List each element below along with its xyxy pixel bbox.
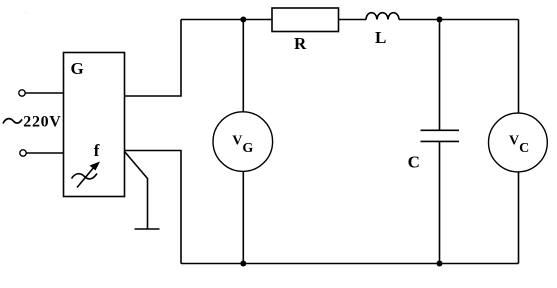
wire VG branch lower bbox=[242, 171, 244, 263]
node junction top at C branch bbox=[437, 17, 443, 23]
svg-text:G: G bbox=[71, 59, 84, 78]
wire VC branch lower bbox=[518, 172, 520, 264]
wire generator out bottom bbox=[125, 151, 182, 264]
variable frequency arrow bbox=[77, 162, 100, 188]
node junction top at VG branch bbox=[240, 17, 246, 23]
node junction bottom at C branch bbox=[437, 261, 443, 267]
top wire left segment bbox=[181, 19, 272, 21]
svg-text:R: R bbox=[294, 34, 307, 53]
inductor L coil bbox=[366, 13, 399, 20]
AC tilde symbol bbox=[3, 119, 22, 124]
wire C branch upper bbox=[439, 20, 441, 131]
terminal top-left bbox=[19, 90, 25, 96]
wire bottom input bbox=[26, 152, 63, 154]
ground bbox=[135, 228, 160, 230]
node junction bottom at VG branch bbox=[240, 261, 246, 267]
resistor R box bbox=[272, 8, 339, 32]
wire C branch lower bbox=[439, 141, 441, 263]
svg-text:f: f bbox=[94, 141, 100, 160]
terminal bottom-left bbox=[20, 150, 26, 156]
wire generator out top bbox=[125, 20, 182, 97]
generator box G bbox=[64, 53, 125, 197]
capacitor C top plate bbox=[421, 129, 460, 131]
wire VC branch upper bbox=[518, 20, 520, 114]
wire VG branch upper bbox=[242, 20, 244, 112]
top wire right segment bbox=[399, 19, 519, 21]
voltmeter VC circle bbox=[489, 113, 548, 172]
wire diagonal to ground bbox=[125, 152, 148, 230]
bottom rail wire bbox=[181, 263, 519, 265]
wire resistor to inductor bbox=[339, 19, 367, 21]
svg-text:220V: 220V bbox=[23, 114, 61, 131]
capacitor C bottom plate bbox=[421, 140, 460, 142]
wire top input bbox=[25, 92, 63, 94]
svg-text:C: C bbox=[408, 153, 420, 172]
voltmeter VG circle bbox=[213, 112, 273, 172]
variable frequency sine bbox=[72, 174, 98, 179]
svg-text:L: L bbox=[375, 28, 386, 47]
